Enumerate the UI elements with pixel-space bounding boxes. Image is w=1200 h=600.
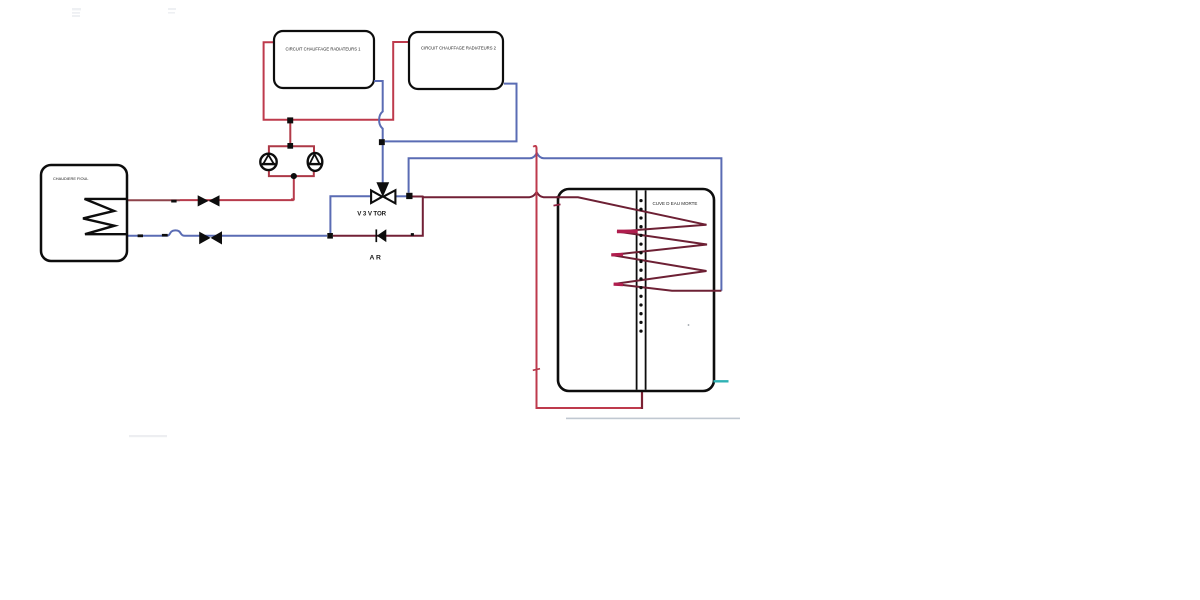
node junction J3 below pumps bbox=[291, 173, 297, 179]
wire blue valve left to boiler return bbox=[330, 196, 371, 233]
node junction J5 return manifold bbox=[327, 233, 333, 239]
wire blue valve right short bbox=[394, 195, 407, 197]
node junction J2 pump manifold top bbox=[287, 143, 293, 149]
valve gate V2 on blue pipe bbox=[199, 231, 222, 244]
wire red boiler outlet pipe (dark section) bbox=[126, 199, 180, 201]
svg-text:CIRCUIT CHAUFFAGE RADIATEURS 1: CIRCUIT CHAUFFAGE RADIATEURS 1 bbox=[286, 46, 362, 51]
wire blue boiler return pipe with bump bbox=[127, 230, 327, 235]
pump P1 bbox=[260, 154, 276, 170]
valve 3-way V3V bbox=[371, 182, 395, 203]
tick on red pipe bbox=[171, 200, 176, 203]
wire red riser tall bbox=[533, 146, 643, 408]
faint gray line under tank bbox=[566, 418, 740, 420]
box circuit chauffage radiateurs 1 bbox=[274, 31, 374, 88]
tick on AR line bbox=[411, 233, 414, 236]
node junction J1 on supply line bbox=[287, 117, 293, 123]
wire red supply box1 to box2 bbox=[264, 42, 409, 120]
coil heat exchanger maroon bbox=[556, 197, 721, 290]
faint dot in tank bbox=[688, 324, 690, 326]
faint smudge top-left bbox=[72, 8, 176, 17]
wire pump manifold top bbox=[269, 146, 314, 154]
svg-text:CUVE D EAU MORTE: CUVE D EAU MORTE bbox=[653, 201, 698, 206]
svg-text:CIRCUIT CHAUFFAGE RADIATEURS 2: CIRCUIT CHAUFFAGE RADIATEURS 2 bbox=[421, 46, 497, 51]
tank stratification column bbox=[637, 190, 646, 389]
teal stub bbox=[714, 380, 729, 382]
svg-text:A R: A R bbox=[370, 255, 382, 262]
faint mark bottom-left of tank bbox=[129, 435, 167, 437]
valve gate V1 on red pipe bbox=[198, 195, 220, 206]
tick on blue pipe near boiler bbox=[138, 234, 143, 237]
wire maroon valve to tank with hop over red riser bbox=[413, 192, 561, 197]
tick on blue pipe before bump bbox=[162, 234, 168, 237]
box circuit chauffage radiateurs 2 bbox=[409, 32, 503, 89]
valve check AR bbox=[376, 229, 386, 242]
wire red pump riser bbox=[289, 123, 291, 146]
node junction J4 box drops bbox=[379, 139, 385, 145]
coil vertex blob B bbox=[614, 283, 623, 287]
wire maroon AR line bbox=[333, 197, 423, 236]
wire maroon stub tank bottom bbox=[641, 391, 643, 409]
heater element zigzag bbox=[83, 199, 126, 234]
svg-text:V 3 V TOR: V 3 V TOR bbox=[357, 211, 386, 218]
pump P2 bbox=[308, 153, 323, 171]
svg-text:CHAUDIERE FIOUL: CHAUDIERE FIOUL bbox=[53, 176, 89, 181]
wire red boiler outlet pipe bbox=[180, 199, 294, 201]
boiler CHAUDIERE FIOUL bbox=[41, 165, 127, 261]
wire red pump return down to boiler pipe bbox=[291, 178, 294, 199]
wire blue junction to valve top bbox=[382, 145, 384, 184]
wire blue bypass up over to tank right side bbox=[409, 153, 722, 291]
node junction J6 valve outlet bbox=[406, 193, 412, 199]
wire pump manifold bottom bbox=[269, 170, 314, 176]
coil vertex blob A bbox=[611, 253, 623, 257]
tank column dots bbox=[639, 199, 642, 333]
tick red riser bbox=[533, 369, 540, 371]
tank CUVE D EAU MORTE bbox=[558, 189, 714, 391]
coil entry tick bbox=[554, 204, 561, 205]
wire blue box2 drop to junction bbox=[385, 84, 517, 142]
wire blue box1 drop with hop over red bbox=[374, 81, 383, 140]
coil stub thick bbox=[617, 230, 638, 234]
